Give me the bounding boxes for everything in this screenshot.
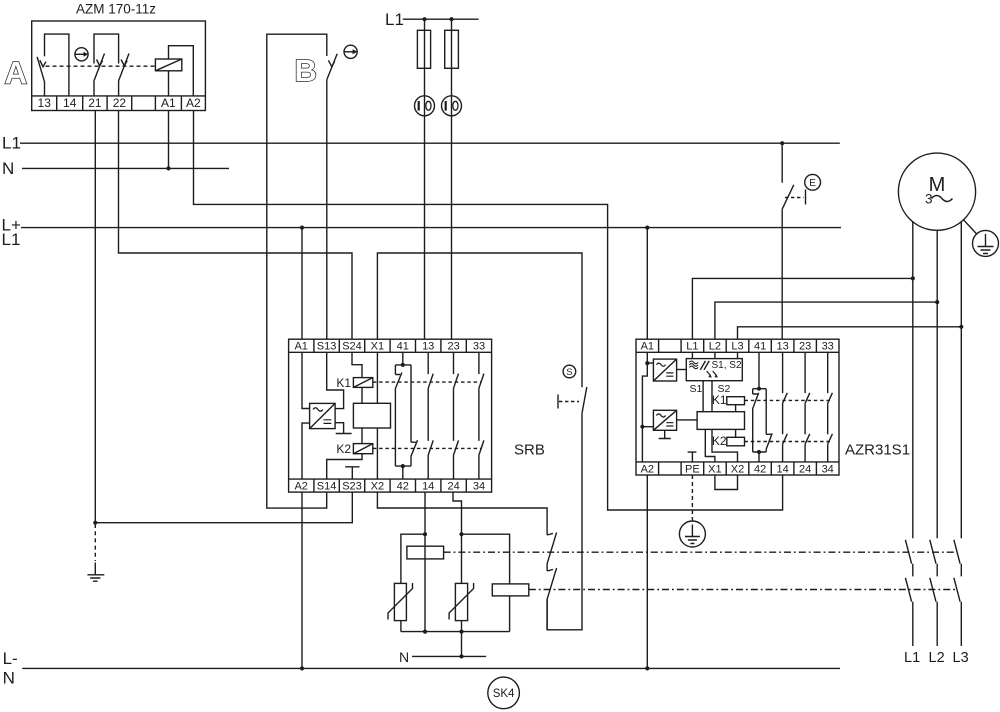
wire AZR L2 to motor leg [715, 302, 937, 339]
svg-text:24: 24 [447, 481, 459, 493]
motor leg L1 with main contacts [905, 222, 912, 646]
SRB logic to K2 [361, 428, 363, 444]
svg-text:S1: S1 [690, 383, 703, 395]
wire varistor 1 branch [401, 534, 425, 631]
wire fuse F2 drop to SRB 23 [451, 19, 453, 339]
svg-text:L2: L2 [709, 341, 721, 353]
wire SRB A2 to bus [301, 492, 303, 668]
svg-text:L1: L1 [2, 230, 21, 249]
svg-text:S13: S13 [317, 341, 337, 353]
svg-text:41: 41 [754, 341, 766, 353]
fuse F2 [445, 30, 459, 68]
SRB K1 to logic [361, 387, 363, 403]
AZR NC contact K2 in loop [766, 389, 772, 452]
wire L+ to SRB A1 [301, 228, 303, 340]
svg-text:A2: A2 [294, 481, 307, 493]
svg-text:N: N [2, 159, 14, 178]
svg-text:X2: X2 [731, 463, 744, 475]
svg-text:L2: L2 [929, 650, 945, 666]
wire fuse F1 drop to SRB 13 [424, 19, 426, 339]
svg-text:A1: A1 [641, 341, 654, 353]
wire AZR L3 to motor leg [738, 327, 962, 339]
SRB NC contact K1 in loop [395, 365, 402, 466]
contact 13-14 bridge [45, 34, 69, 96]
svg-text:34: 34 [473, 481, 485, 493]
svg-text:S2: S2 [718, 383, 731, 395]
wire L+/L1 bus [21, 227, 841, 229]
svg-text:S24: S24 [342, 341, 362, 353]
wire gate contact B to SRB S13 [326, 80, 328, 339]
fuse F1 [417, 30, 430, 68]
AZR relay K1 [727, 397, 745, 405]
svg-text:X1: X1 [371, 341, 384, 353]
AZR L1 L2 L3 stubs [692, 352, 737, 358]
svg-text:X1: X1 [708, 463, 721, 475]
AZR NC contact K1 in loop [753, 389, 759, 452]
contact B chevron [328, 60, 334, 66]
feedback chain NC contact K2 [547, 568, 557, 630]
AZR terminal dividers [659, 339, 817, 352]
AZR PSU2 earth [659, 430, 671, 438]
svg-text:24: 24 [799, 463, 811, 475]
svg-text:A1: A1 [161, 96, 176, 110]
SRB K2 mech link dashes [373, 447, 481, 449]
AZR relay K2 [727, 437, 745, 446]
SRB A1 internal wire [302, 352, 310, 408]
AZR power supply 1 [653, 359, 676, 381]
SRB S23 internal tap [345, 467, 359, 479]
wire net 22 of A to SRB S24 [119, 111, 353, 340]
svg-text:AZR31S1: AZR31S1 [845, 442, 910, 459]
contact 13 blade [37, 57, 44, 96]
SRB terminal labels top [294, 341, 833, 493]
SK4 circle [488, 677, 520, 709]
SRB K2 to S14 [327, 454, 362, 479]
wire L+ to AZR A1 [646, 228, 648, 340]
varistor 1 [394, 583, 406, 620]
SRB 41-42 feedback loop [395, 352, 411, 479]
contact 21 chevron [97, 60, 103, 66]
protective earth circle [679, 521, 705, 547]
SRB X1 to logic [376, 352, 378, 403]
svg-text:14: 14 [776, 463, 788, 475]
SRB output contacts 13-14 [428, 352, 433, 479]
SRB output contacts 33-34 [479, 352, 484, 479]
start button S blade [582, 387, 587, 413]
svg-text:33: 33 [822, 341, 834, 353]
wire S14 loop through gate contact B [267, 34, 327, 508]
contact 22 chevron [121, 60, 127, 66]
svg-text:SRB: SRB [514, 441, 545, 458]
svg-text:S1, S2: S1, S2 [712, 360, 742, 371]
AZR PE internal tap [688, 452, 697, 462]
AZR31S1 relay box [636, 339, 839, 475]
svg-text:23: 23 [799, 341, 811, 353]
AZR K2 mech link dashes [745, 441, 831, 443]
AZR output contacts 13-14 [783, 352, 788, 462]
svg-text:33: 33 [473, 341, 485, 353]
wire L-/N bottom bus [22, 667, 840, 669]
svg-text:A1: A1 [294, 341, 307, 353]
svg-text:E: E [809, 178, 816, 189]
control switch I-0 no.2 [442, 96, 462, 116]
wire net A2 of coil A to AZR terminal 14 [194, 111, 783, 511]
SRB power supply unit [310, 403, 336, 428]
motor leg L2 with main contacts [930, 230, 937, 646]
svg-text:14: 14 [422, 481, 434, 493]
svg-text:42: 42 [754, 463, 766, 475]
AZR K1 mech link dashes [745, 399, 831, 401]
svg-text:K2: K2 [336, 442, 351, 456]
svg-text:L1: L1 [2, 134, 21, 153]
NC contact 21 [94, 54, 105, 96]
SRB relay coil K1 [353, 378, 372, 388]
SRB relay coil K2 [353, 444, 372, 454]
svg-text:3: 3 [925, 192, 933, 207]
svg-text:AZM 170-11z: AZM 170-11z [76, 2, 156, 17]
svg-text:PE: PE [685, 463, 700, 475]
svg-text:13: 13 [776, 341, 788, 353]
feedback chain NC contact K1 [547, 532, 557, 571]
SRB K1 mech link dashes [373, 381, 481, 383]
E-stop circle [805, 174, 821, 190]
contactor 2 mech link dashes [529, 589, 957, 591]
wire SRB X2 to feedback chain [377, 492, 547, 535]
svg-text:X2: X2 [371, 481, 384, 493]
AZR logic to X2 [712, 429, 738, 462]
wire N line [22, 167, 229, 169]
svg-text:34: 34 [822, 463, 834, 475]
motor earth lead [964, 220, 977, 234]
contact 13 chevron [40, 60, 46, 67]
motor earth circle [973, 230, 999, 256]
E-stop actuator [805, 190, 807, 205]
wire SRB X1 to start button S [377, 253, 582, 387]
svg-text:S: S [566, 367, 572, 378]
AZR logic to X1 [705, 429, 715, 462]
motor M circle [898, 153, 975, 230]
SRB logic block [353, 403, 390, 428]
contactor coil 1 [407, 546, 444, 559]
SRB logic to X2 [376, 428, 378, 479]
AZR output contacts 23-24 [805, 352, 810, 462]
SRB S24 internal wire [352, 352, 362, 377]
wire contactor coil 2 branch [462, 534, 510, 631]
svg-text:L1: L1 [904, 650, 920, 666]
NC contact 22 [119, 54, 129, 96]
AZR PE drop dashed [691, 475, 693, 521]
wire coil bottoms join [401, 631, 510, 633]
AZR input block [686, 359, 742, 381]
SRB safety relay box [289, 339, 492, 492]
svg-text:42: 42 [397, 481, 409, 493]
AZR PSU1 to input block [677, 369, 687, 371]
wire AZR X1-X2 jumper [715, 475, 738, 490]
SRB S13 internal wire [327, 352, 344, 408]
svg-text:A2: A2 [186, 96, 201, 110]
AZR A1-A2 internal wire [642, 352, 653, 462]
contact 21-22 bridge [94, 34, 119, 63]
svg-text:N: N [3, 669, 15, 688]
varistor 2 [455, 583, 467, 620]
wire E-stop to AZR 13 [781, 209, 783, 339]
svg-text:K1: K1 [712, 393, 727, 407]
svg-text:21: 21 [88, 96, 102, 110]
actuator symbol A [75, 48, 88, 61]
start button S circle [563, 365, 576, 378]
mechanical link dashes A [46, 65, 156, 67]
svg-text:L3: L3 [953, 650, 969, 666]
AZR output contacts 33-34 [828, 352, 833, 462]
svg-text:22: 22 [113, 96, 127, 110]
wire net A1 of coil A to N [168, 111, 170, 169]
earth symbol at ground line [94, 524, 96, 561]
svg-text:13: 13 [38, 96, 52, 110]
AZR power supply 2 [653, 410, 676, 430]
AZR logic block [697, 412, 744, 430]
safety interlock box A (AZM 170-11z) [32, 21, 206, 111]
svg-text:L1: L1 [686, 341, 698, 353]
A box terminal labels [38, 96, 202, 110]
relay coil A1-A2 [155, 59, 181, 71]
motor leg L3 with main contacts [954, 222, 961, 646]
svg-text:23: 23 [447, 341, 459, 353]
svg-text:K2: K2 [712, 434, 727, 448]
wire L1 fuse stub [403, 18, 479, 20]
SRB internal earth of PSU [335, 423, 352, 434]
wire L1 top bus [20, 142, 840, 144]
svg-text:B: B [295, 53, 317, 88]
svg-text:S23: S23 [342, 481, 362, 493]
svg-text:41: 41 [397, 341, 409, 353]
AZR 41-42 feedback loop [753, 352, 767, 462]
control switch I-0 no.1 [415, 96, 435, 116]
wire AZR A2 to bus [646, 475, 648, 668]
SRB terminal dividers [314, 339, 466, 352]
svg-text:K1: K1 [336, 376, 351, 390]
contactor 1 mech link dashes [444, 551, 957, 553]
actuator symbol B [344, 45, 357, 58]
svg-text:A2: A2 [641, 463, 654, 475]
svg-text:A: A [5, 55, 28, 91]
svg-text:SK4: SK4 [493, 688, 515, 700]
wire SRB 24 to contactor coil 2 and N [453, 492, 462, 656]
start button S actuator [557, 395, 559, 409]
svg-text:L3: L3 [731, 341, 743, 353]
SRB A2 internal wire [302, 423, 310, 479]
E-stop blade [782, 185, 794, 209]
AZR input block arrows [707, 371, 717, 376]
wire L1 to E-stop [781, 143, 783, 183]
wire N stub [412, 655, 486, 657]
gate contact B blade [327, 54, 337, 80]
wire net 21 of A to SRB S23 with ground tap [95, 111, 352, 523]
svg-text:L1: L1 [385, 10, 404, 29]
contactor coil 2 [492, 584, 529, 596]
AZR S1 S2 lines [703, 381, 712, 412]
wire start button S to feedback chain rail [547, 413, 582, 630]
svg-text:14: 14 [63, 96, 77, 110]
svg-text:S14: S14 [317, 481, 337, 493]
SRB output contacts 23-24 [454, 352, 459, 479]
AZR PSU2 to logic [677, 419, 698, 421]
wire SRB 14 to contactor coil 1 [424, 492, 426, 631]
svg-text:N: N [399, 649, 409, 665]
wire AZR L1 to motor leg [692, 278, 912, 339]
svg-text:13: 13 [422, 341, 434, 353]
svg-text:L-: L- [3, 649, 18, 668]
SRB NC contact K2 in loop [411, 365, 418, 466]
